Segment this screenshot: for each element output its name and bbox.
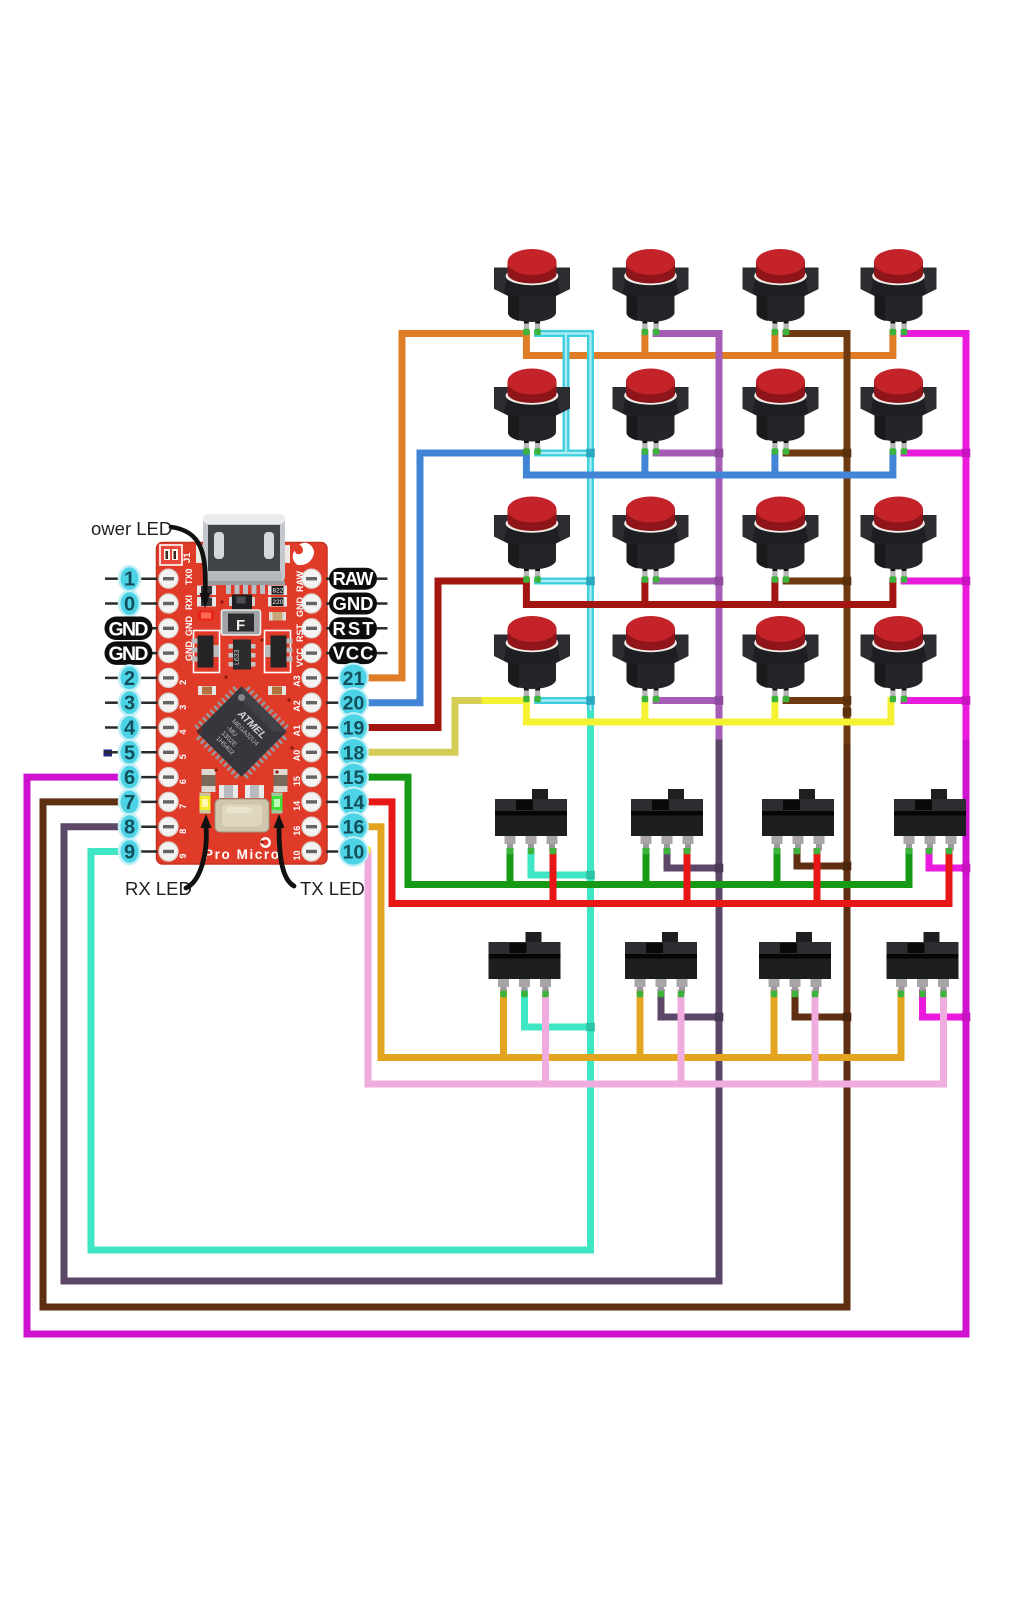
svg-text:A0: A0: [292, 750, 302, 762]
svg-text:15: 15: [343, 767, 365, 789]
svg-text:18: 18: [343, 742, 365, 764]
pushbutton S16: [861, 616, 937, 700]
svg-text:3: 3: [124, 693, 135, 715]
svg-text:4: 4: [178, 729, 188, 734]
svg-text:6: 6: [124, 767, 135, 789]
svg-text:GND: GND: [109, 618, 149, 640]
label pin 0: [118, 590, 142, 618]
pushbutton S4: [861, 249, 937, 333]
label GND left pin: [105, 641, 153, 665]
svg-text:8: 8: [124, 817, 135, 839]
svg-text:9: 9: [178, 853, 188, 858]
svg-text:F: F: [236, 617, 245, 634]
svg-text:VCC: VCC: [333, 643, 374, 664]
voltage regulator left: [192, 631, 220, 673]
wire pin10 pink switch row B right-pin bus: [368, 852, 944, 1084]
label pin 18: [338, 737, 369, 768]
svg-text:822: 822: [273, 588, 284, 595]
pushbutton S2: [613, 249, 689, 333]
through-holes: [159, 569, 321, 861]
label pin 1: [118, 565, 142, 593]
wire net COL3 brown trunk (button column 3 right pins): [786, 334, 847, 751]
slide switch SW2: [631, 789, 703, 851]
voltage regulator right: [265, 631, 293, 673]
label RAW right: [329, 568, 377, 590]
wire net COL2 dark purple run to pin 8: [64, 743, 719, 1281]
PCB: [157, 543, 328, 865]
via dots: [198, 600, 293, 843]
label pin 20: [338, 687, 369, 718]
MCU ATmega32U4: [188, 678, 294, 784]
label pin 5: [118, 739, 142, 767]
svg-text:A2: A2: [292, 700, 302, 712]
svg-text:7: 7: [124, 792, 135, 814]
pushbutton S15: [743, 616, 819, 700]
leader lines: [105, 579, 388, 852]
svg-text:L633: L633: [234, 649, 241, 665]
sparkfun flame logo: [293, 543, 314, 565]
label VCC right: [329, 642, 377, 664]
svg-text:RST: RST: [295, 623, 305, 642]
USB connector J-USB: [196, 514, 290, 594]
svg-text:21: 21: [343, 668, 365, 690]
label pin 3: [118, 689, 142, 717]
svg-text:2: 2: [178, 680, 188, 685]
SMD resistors top-right pair (822/220): [268, 586, 287, 607]
label pin 4: [118, 714, 142, 742]
tan capacitor: [269, 612, 286, 621]
svg-text:GND: GND: [109, 643, 149, 665]
label pin 9: [118, 838, 142, 866]
svg-text:16: 16: [343, 817, 365, 839]
J1 silkscreen box: [160, 545, 182, 565]
small resistors mid-left/right: [198, 686, 216, 695]
annotation arrow TX LED: [279, 826, 294, 886]
wire pin14 red switch row A right-pin bus: [366, 802, 949, 904]
svg-text:220: 220: [273, 599, 284, 606]
wire net COL2 violet trunk (button column 2 right pins): [656, 334, 719, 746]
svg-text:10: 10: [343, 842, 365, 864]
svg-text:TX LED: TX LED: [300, 878, 365, 899]
silkscreen pin names right: [292, 570, 305, 860]
annotation arrow power LED: [171, 527, 205, 595]
svg-text:10: 10: [292, 850, 302, 860]
label pin 8: [118, 813, 142, 841]
label pin 6: [118, 763, 142, 791]
label RST right: [329, 617, 377, 639]
svg-text:A1: A1: [292, 725, 302, 737]
SMD transistor above fuse: [229, 597, 234, 606]
svg-text:14: 14: [292, 801, 302, 811]
wire net COL1 cyan trunk (button column 1 right pins): [538, 334, 591, 717]
svg-text:J1: J1: [182, 552, 193, 563]
wire pin16 gold switch row B left-pin bus: [366, 827, 901, 1058]
svg-text:RX LED: RX LED: [125, 878, 192, 899]
svg-text:7: 7: [178, 804, 188, 809]
wire pin20 blue row2 bus (button row 2 left pins): [366, 453, 893, 703]
svg-text:VCC: VCC: [295, 647, 305, 667]
svg-text:ower LED: ower LED: [91, 518, 172, 539]
svg-text:8: 8: [178, 829, 188, 834]
svg-text:GND: GND: [295, 597, 305, 618]
slide switch SW5: [489, 932, 561, 994]
svg-text:1: 1: [124, 569, 135, 591]
pin connection dots (green): [500, 329, 952, 997]
middle IC L633: [229, 640, 256, 670]
svg-text:RAW: RAW: [333, 568, 375, 589]
wire stub pin10 yellow: [363, 847, 371, 854]
svg-text:14: 14: [343, 792, 365, 814]
pushbutton S7: [743, 369, 819, 453]
svg-text:RST: RST: [333, 618, 375, 639]
SMD resistors top-left pair: [197, 586, 216, 607]
wire pin19 dark red row3 bus (button row 3 left pins): [366, 581, 893, 728]
pushbutton S5: [494, 369, 570, 453]
Pro Micro board: [157, 514, 328, 864]
pushbutton S14: [613, 616, 689, 700]
wire pin15 green switch row A left-pin bus: [366, 777, 909, 884]
wire stub pin5 navy: [104, 750, 113, 757]
fuse F: [222, 610, 261, 635]
caps above crystal: [219, 785, 238, 798]
pushbutton S3: [743, 249, 819, 333]
wire pin18 olive-yellow riser: [366, 701, 487, 753]
label pin 14: [338, 787, 369, 818]
svg-text:19: 19: [343, 718, 365, 740]
slide switch SW1: [495, 789, 567, 851]
svg-text:20: 20: [343, 693, 365, 715]
wire junction dots: [586, 449, 970, 1032]
via ring bottom right: [261, 838, 269, 846]
svg-text:RXI: RXI: [184, 595, 194, 610]
svg-text:TX0: TX0: [184, 568, 194, 585]
label pin 15: [338, 762, 369, 793]
label pin 16: [338, 811, 369, 842]
svg-text:5: 5: [178, 754, 188, 759]
label GND left pin: [105, 617, 153, 641]
TX LED green: [272, 793, 283, 814]
svg-text:GND: GND: [184, 616, 194, 637]
svg-text:2: 2: [124, 668, 135, 690]
svg-text:RAW: RAW: [295, 570, 305, 592]
svg-text:15: 15: [292, 776, 302, 786]
svg-text:3: 3: [178, 705, 188, 710]
label pin 10: [338, 836, 369, 867]
SMD packages above LEDs: [202, 769, 216, 792]
label pin 21: [338, 663, 369, 694]
label pin 19: [338, 712, 369, 743]
svg-text:9: 9: [124, 842, 135, 864]
label pin 2: [118, 664, 142, 692]
svg-text:Pro Micro: Pro Micro: [204, 847, 279, 862]
svg-text:16: 16: [292, 826, 302, 836]
pushbutton S6: [613, 369, 689, 453]
silkscreen pin names left: [178, 568, 194, 858]
power LED (red): [198, 611, 214, 621]
crystal: [215, 799, 269, 832]
slide switch SW7: [759, 932, 831, 994]
label GND right: [329, 593, 377, 615]
slide switch SW3: [762, 789, 834, 851]
pushbutton S9: [494, 497, 570, 581]
svg-text:5: 5: [124, 742, 135, 764]
pushbutton S8: [861, 369, 937, 453]
annotation arrow RX LED: [186, 826, 206, 888]
svg-text:4: 4: [124, 718, 136, 740]
wire net COL4 magenta trunk (button column 4 right pins): [904, 334, 966, 1018]
slide switch SW8: [887, 932, 959, 994]
pushbutton S10: [613, 497, 689, 581]
RX LED yellow: [200, 793, 211, 814]
wire net COL1 turquoise run to pin 9: [91, 714, 591, 1250]
wire net COL4 magenta run to pin 6: [27, 743, 966, 1334]
wire pin21 orange row1 bus (button row 1 left pins): [366, 334, 893, 678]
wire yellow row4 bus (button row 4 left pins): [485, 701, 891, 723]
svg-text:GND: GND: [333, 593, 374, 614]
slide switch SW4: [894, 789, 966, 851]
svg-text:A3: A3: [292, 675, 302, 687]
svg-text:0: 0: [124, 594, 135, 616]
pushbutton S13: [494, 616, 570, 700]
wire net COL3 brown run to pin 7: [43, 748, 847, 1307]
pushbutton S12: [861, 497, 937, 581]
label pin 7: [118, 788, 142, 816]
pushbutton S1: [494, 249, 570, 333]
pushbutton S11: [743, 497, 819, 581]
svg-text:6: 6: [178, 779, 188, 784]
slide switch SW6: [625, 932, 697, 994]
